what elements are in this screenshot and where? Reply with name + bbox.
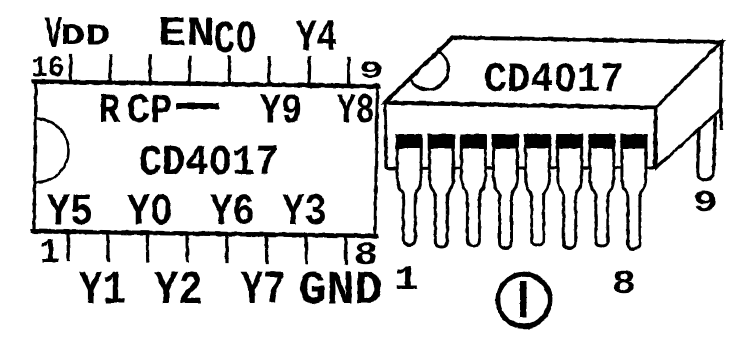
pin number 16: [31, 51, 64, 85]
pin tick bottom #3: [146, 234, 150, 260]
pin tick top #16: [69, 56, 73, 83]
pin label Y5 (pin 1): [47, 188, 93, 238]
pin tick bottom #1: [66, 233, 70, 260]
front pin #2 black shoulder bar: [428, 134, 455, 149]
front pin #3 of 3D package: [461, 136, 485, 246]
svg-text:Y3: Y3: [282, 188, 327, 238]
svg-text:DD: DD: [60, 20, 110, 53]
pin label VDD (pin 16): [45, 11, 62, 61]
pin tick bottom #7: [304, 236, 308, 262]
front pin #2 of 3D package: [429, 136, 453, 247]
front pin #3 black shoulder bar: [460, 134, 487, 149]
svg-text:9: 9: [693, 186, 718, 221]
svg-text:Y5: Y5: [47, 188, 93, 238]
front pin #8 black shoulder bar: [620, 134, 647, 149]
pin tick bottom #4: [185, 235, 189, 261]
svg-text:Y0: Y0: [127, 188, 173, 238]
front face top edge of 3D package: [385, 103, 656, 108]
svg-text:Y4: Y4: [296, 13, 337, 63]
pin label Y7 (pin 6): [241, 263, 285, 318]
front face left edge of 3D package: [385, 103, 387, 170]
right side face of 3D package: [656, 42, 722, 168]
part number CD4017 (3D package top face): [484, 58, 624, 104]
svg-text:Y2: Y2: [154, 264, 203, 318]
front pin #5 of 3D package: [526, 136, 550, 245]
svg-text:Y6: Y6: [210, 188, 255, 238]
pin number 1 (bottom left): [40, 235, 60, 273]
pin number 8 (bottom right): [354, 237, 378, 273]
back-right vertical edge extension below right face: [719, 108, 723, 131]
pin label C0 (pin 12): [214, 15, 257, 66]
svg-text:1: 1: [394, 262, 419, 300]
svg-text:Y1: Y1: [79, 265, 126, 319]
dash label (no-connect) inside top row: [176, 103, 219, 109]
figure number: circled 1: [498, 274, 550, 326]
pin label Y6 (pin 5): [210, 188, 255, 238]
svg-text:GND: GND: [298, 265, 382, 319]
front pin #6 black shoulder bar: [556, 134, 583, 149]
pin tick bottom #2: [106, 234, 110, 260]
pin tick top #9: [347, 58, 351, 85]
pin tick top #14: [148, 56, 152, 83]
svg-text:16: 16: [31, 51, 64, 85]
front pin #1 of 3D package: [397, 136, 421, 245]
front pin #6 of 3D package: [558, 136, 582, 248]
front face right edge of 3D package: [655, 108, 656, 170]
pin label Y2 (pin 4): [154, 264, 203, 318]
figure number: numeral bar inside circle: [520, 281, 527, 317]
IC U1 pinout box right edge: [375, 85, 378, 237]
pin tick bottom #6: [265, 236, 269, 262]
pin label Y8 (pin 9): [337, 88, 375, 135]
IC package 3D view body bottom edge: [386, 168, 656, 169]
pin label Y9 (pin 11): [260, 88, 302, 135]
front pin #4 of 3D package: [494, 136, 518, 248]
svg-text:EN: EN: [158, 12, 215, 58]
svg-text:9: 9: [359, 58, 384, 85]
notch circle on top face: [408, 49, 449, 90]
front pin #1 black shoulder bar: [396, 134, 423, 149]
front pin #5 black shoulder bar: [524, 134, 551, 149]
pin label GND (pin 8): [298, 265, 382, 319]
svg-text:CD4017: CD4017: [484, 58, 624, 104]
pin number 8 (3D view): [612, 266, 636, 304]
back pin 9 of 3D package: [698, 114, 716, 180]
pin tick top #10: [307, 58, 311, 85]
pin tick top #13: [188, 57, 192, 84]
svg-text:CP: CP: [127, 89, 173, 136]
svg-text:1: 1: [40, 235, 60, 273]
svg-text:C0: C0: [214, 15, 257, 66]
front pin #7 black shoulder bar: [588, 134, 615, 149]
svg-text:R: R: [99, 88, 121, 135]
pin tick bottom #8: [344, 237, 348, 263]
IC U1 pinout box top edge (CD4017 DIP-16 top view): [34, 82, 378, 87]
svg-text:Y7: Y7: [241, 263, 285, 318]
pin number 1 (3D view): [394, 262, 419, 300]
pin label CP (pin 14): [127, 89, 173, 136]
pin label Y4 (pin 10): [296, 13, 337, 63]
svg-text:CD4017: CD4017: [139, 139, 279, 187]
pin label EN (pin 13): [158, 12, 215, 58]
pin number 9 (top right): [359, 58, 384, 85]
pin label Y0 (pin 3): [127, 188, 173, 238]
svg-text:8: 8: [612, 266, 636, 304]
IC U1 pinout box left edge: [34, 81, 36, 232]
top face of 3D package: [385, 38, 722, 108]
pin tick bottom #5: [225, 235, 229, 261]
pin label Y1 (pin 2): [79, 265, 126, 319]
svg-text:Y9: Y9: [260, 88, 302, 135]
svg-text:Y8: Y8: [337, 88, 375, 135]
front pin #4 black shoulder bar: [492, 134, 519, 149]
pin tick top #11: [267, 58, 271, 85]
front pin #8 of 3D package: [622, 136, 646, 249]
pin tick top #12: [228, 57, 232, 84]
pin label Y3 (pin 7): [282, 188, 327, 238]
notch (pin-1 index half-circle on left edge): [37, 119, 69, 182]
pin number 9 (3D view): [693, 186, 718, 221]
part number CD4017 (left box): [139, 139, 279, 187]
pin label R (pin 15): [99, 88, 121, 135]
IC U1 pinout box bottom edge: [33, 231, 376, 236]
front pin #7 of 3D package: [590, 136, 614, 246]
pin tick top #15: [108, 56, 112, 83]
